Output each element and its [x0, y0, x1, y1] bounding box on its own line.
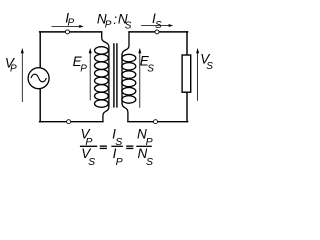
- wire: right vertical branch: [186, 32, 188, 122]
- formula: fraction bar 1: [80, 145, 97, 147]
- formula: fraction bar 3: [136, 145, 152, 147]
- wire: bottom-left horizontal: [40, 121, 103, 123]
- arrow: voltage V_P: [21, 48, 24, 102]
- svg-text:P: P: [10, 64, 17, 75]
- wire: top-right horizontal: [129, 31, 188, 33]
- svg-text:P: P: [68, 17, 75, 28]
- formula: fraction bar 2: [111, 145, 123, 147]
- arrow: current I_P: [52, 25, 84, 28]
- wire: bottom-right horizontal: [128, 121, 188, 123]
- svg-text:P: P: [116, 156, 123, 168]
- arrow: EMF E_P: [89, 48, 92, 101]
- formula: equals sign 1: [100, 145, 107, 149]
- formula: equals sign 2: [126, 145, 133, 149]
- arrow: EMF E_S: [138, 48, 141, 108]
- svg-text::: :: [113, 12, 117, 27]
- node: top-right terminal: [155, 30, 159, 34]
- wire: left vertical branch: [39, 32, 41, 122]
- AC source V1 (sine generator): [28, 68, 49, 89]
- svg-text:S: S: [206, 61, 213, 72]
- svg-text:S: S: [147, 64, 154, 75]
- svg-text:S: S: [125, 20, 132, 31]
- node: top-left terminal: [66, 30, 70, 34]
- svg-text:S: S: [88, 156, 95, 168]
- svg-text:P: P: [80, 63, 87, 74]
- wire: top-left horizontal: [40, 31, 102, 33]
- svg-text:S: S: [155, 20, 162, 31]
- resistor load R (V_S): [182, 55, 191, 92]
- arrow: voltage V_S: [196, 48, 199, 101]
- svg-text:S: S: [146, 156, 153, 168]
- arrow: current I_S: [141, 24, 173, 27]
- node: bottom-left terminal: [67, 120, 71, 124]
- svg-text:P: P: [105, 20, 112, 31]
- node: bottom-right terminal: [154, 120, 158, 124]
- transformer T1 secondary winding (N_S): [122, 32, 136, 122]
- transformer T1 primary winding (N_P): [95, 32, 109, 122]
- transformer core: [114, 43, 117, 107]
